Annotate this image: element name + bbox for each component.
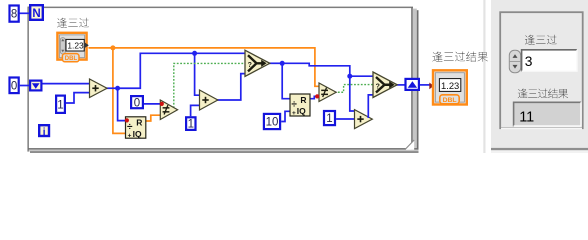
green wire neq1 output to select1 s input: [174, 63, 245, 108]
orange wire QR1 R output to neq1 bottom input: [146, 115, 161, 121]
wire const 1 to add2 bottom input: [191, 105, 200, 116]
wire const 1 to add1 bottom input: [66, 93, 90, 103]
junction dot select1 output: [280, 61, 285, 66]
label 逢三过 diagram: [57, 18, 89, 28]
for loop resize notch: [405, 140, 414, 150]
wire add2 output to select1 f input: [217, 74, 246, 100]
wire junction to select2 t input with jog: [282, 63, 373, 76]
green wire neq2 output to select2 s input: [335, 85, 374, 93]
loop count terminal N: [30, 5, 43, 20]
add node 1: [90, 79, 108, 98]
wire add1 output to junction: [105, 87, 118, 89]
wire const 1 to add3 bottom input: [336, 118, 354, 120]
constant 8: [10, 6, 19, 22]
left shift register terminal: [30, 81, 41, 91]
svg-text:11: 11: [519, 109, 534, 125]
junction dot top wire: [192, 51, 197, 56]
junction dot select2 t wire: [347, 74, 352, 79]
wire junction down to QR2 x input: [282, 63, 290, 98]
svg-text:10: 10: [266, 117, 279, 129]
for loop left border: [27, 7, 29, 152]
coercion dot neq1: [160, 102, 164, 106]
svg-text:DBL: DBL: [65, 56, 78, 62]
block diagram window right edge: [483, 0, 485, 153]
wire junction down to QR1 x input: [118, 88, 126, 120]
svg-text:N: N: [32, 8, 40, 20]
wire QR2 R output to neq2 bottom input: [310, 96, 319, 98]
svg-text:1.23: 1.23: [441, 80, 459, 91]
for loop right border band: [411, 7, 418, 152]
wire right shift register to indicator 逢三过结果: [420, 84, 432, 86]
for loop top border: [28, 7, 413, 9]
panel numeric control 逢三过 : spinner: [509, 50, 520, 72]
wire select2 output to right shift register: [395, 84, 405, 86]
svg-text:0: 0: [134, 97, 140, 109]
constant 10: [264, 114, 280, 129]
svg-text:3: 3: [525, 54, 533, 69]
constant 0 outside loop: [10, 78, 19, 94]
select node 1: [245, 50, 270, 76]
svg-text:i: i: [43, 127, 46, 138]
panel numeric indicator 逢三过结果 value 11: [513, 102, 581, 127]
svg-text:1: 1: [57, 99, 63, 111]
constant 1 first: [56, 96, 65, 113]
for loop bottom border band: [28, 148, 419, 153]
control terminal 逢三过 DBL: [57, 33, 88, 62]
svg-text:1.23: 1.23: [67, 41, 84, 51]
wire const 10 to QR2 y input: [281, 111, 290, 121]
front panel window bottom border: [491, 148, 588, 153]
coercion dot QR1: [125, 118, 129, 122]
wire shift register to add1 top input: [43, 83, 90, 85]
wire junction up and across to select1 t input: [118, 53, 245, 88]
iteration terminal i: [39, 125, 49, 138]
constant 0 inside loop: [131, 96, 143, 109]
junction dot add1 output: [115, 86, 120, 91]
svg-text:IQ: IQ: [133, 129, 142, 139]
svg-text:IQ: IQ: [297, 106, 306, 116]
add node 2: [200, 90, 218, 110]
svg-text:?: ?: [376, 83, 380, 90]
orange wire branch down to QR1 y input: [113, 48, 126, 133]
svg-text:0: 0: [11, 80, 17, 92]
svg-text:1: 1: [188, 119, 194, 131]
wire branch down to add2 top input: [195, 53, 200, 95]
label 逢三过结果 diagram: [432, 52, 487, 62]
wire 0 to left shift register: [20, 85, 30, 87]
panel label 逢三过结果: [518, 89, 568, 99]
panel numeric control 逢三过 : text field value 3: [521, 49, 577, 72]
wire const 0 to neq1 top input: [144, 103, 160, 105]
svg-text:+: +: [128, 132, 132, 139]
svg-text:R: R: [300, 95, 306, 105]
wire add3 output up to select2 f input: [368, 95, 373, 118]
wire select1 output to junction: [269, 62, 283, 64]
svg-text:?: ?: [248, 62, 252, 69]
svg-text:R: R: [136, 118, 142, 128]
svg-text:8: 8: [11, 9, 17, 21]
panel label 逢三过: [525, 35, 557, 45]
select node 2: [373, 72, 397, 98]
quotient-remainder node 1: [126, 117, 146, 140]
not-equal node 1: [160, 100, 177, 120]
add node 3: [355, 110, 373, 129]
constant 1 third: [324, 111, 335, 125]
orange junction dot: [110, 45, 115, 50]
svg-text:÷: ÷: [291, 99, 297, 110]
front panel window background: [491, 0, 588, 153]
quotient-remainder node 2: [290, 94, 310, 117]
front panel decorative frame: [500, 12, 583, 128]
coercion dot neq2: [315, 94, 319, 98]
svg-text:DBL: DBL: [443, 97, 457, 104]
not-equal node 2: [319, 83, 336, 102]
svg-text:1: 1: [326, 113, 332, 125]
svg-text:÷: ÷: [127, 122, 133, 133]
svg-text:+: +: [292, 110, 296, 117]
wire branch down to add3 top input: [350, 76, 355, 111]
orange wire from control 逢三过: [89, 48, 319, 86]
right shift register terminal: [406, 79, 419, 90]
wire 8 to N: [19, 12, 30, 14]
constant 1 second: [186, 117, 195, 130]
indicator terminal 逢三过结果 DBL: [429, 70, 467, 104]
